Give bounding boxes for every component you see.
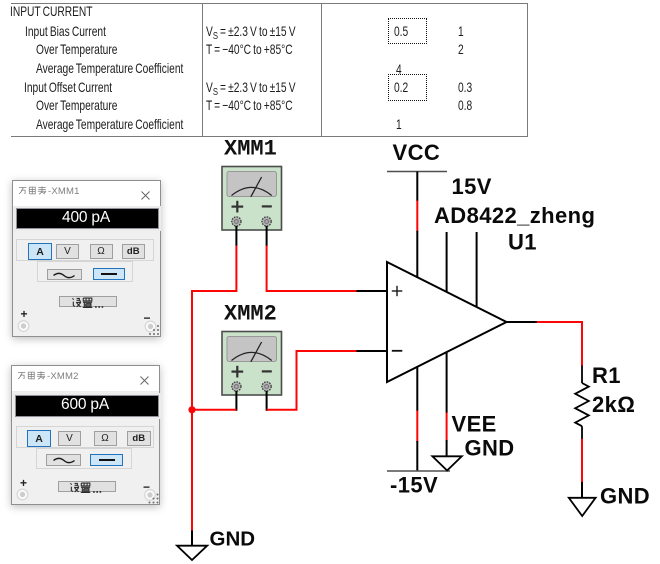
wire: XMM1 - terminal black stub [266,226,268,246]
wire: XMM2 + to junction (red) [192,409,236,411]
power: -15V bar [387,470,450,472]
table column line 1 [202,3,203,137]
pin: U1 REF (black, from lower triangle edge) [446,352,448,414]
sine button [47,269,82,280]
wire: XMM2 - to op-amp - input (red) [267,351,358,410]
table bottom border [11,136,527,137]
wire: left rail down to GND (red) [191,290,193,532]
wire: output to R1 (red) [537,322,582,366]
svg-text:-15V: -15V [390,472,438,497]
svg-text:GND: GND [600,484,650,509]
settings button [59,296,117,308]
svg-text:GND: GND [465,436,515,461]
DC button (selected) [90,454,123,466]
multimeter XMM1 body [222,167,282,231]
op-amp U1 triangle [387,262,507,382]
wire: op-amp - input pin (black) [357,350,388,352]
ground: output load GND symbol [569,482,596,516]
row 6: Over Temperature [36,98,117,114]
svg-text:U1: U1 [508,230,537,255]
row 4: Average Temperature Coefficient [36,61,183,77]
pin: REF black to ground [446,440,448,456]
node: junction at left rail / XMM2 + [188,406,195,413]
svg-text:15V: 15V [452,174,492,199]
svg-text:R1: R1 [592,363,621,388]
table column line 2 [321,3,322,137]
multimeter XMM2 body [222,332,282,396]
table: INPUT CURRENT datasheet fragment [0,0,530,140]
dashed box 0.5 [388,18,427,44]
terminal circles [13,319,161,337]
row 5: Input Offset Current [24,80,112,96]
ground: bottom-left GND symbol [177,531,207,561]
wire: REF to GND (red) [446,413,448,441]
terminal circles [12,488,160,506]
wire: XMM2 - terminal black stub [266,391,268,411]
instrument window: 万用表-XMM2 [11,365,160,506]
table top border [11,3,527,4]
svg-text:2kΩ: 2kΩ [592,392,635,417]
pin: -VS black to -15V bar [416,441,418,471]
wire: XMM1 - to op-amp + input (red) [267,246,358,292]
sine button [46,454,81,466]
dashed box 0.2 [388,74,427,101]
A button (selected) [28,243,52,260]
wire: R1 to GND (red) [581,439,583,483]
row 1: INPUT CURRENT [10,4,93,20]
op-amp - input mark [392,350,403,352]
pin: U1 RG1 stub (black, stops at triangle edge) [446,232,448,293]
ground: U1 REF GND symbol [432,456,461,470]
row 2: Input Bias Current [25,24,106,40]
svg-text:VCC: VCC [393,140,441,165]
wire: XMM2 + terminal black stub [235,391,237,411]
wire: XMM1 + terminal black stub [235,226,237,246]
pin: U1 output (black) [506,321,538,323]
op-amp + input mark [392,286,403,296]
svg-text:XMM1: XMM1 [224,137,277,162]
svg-text:GND: GND [210,528,256,551]
power VCC symbol [387,172,447,202]
row 3: Over Temperature [36,42,117,58]
resistor R1 [575,366,589,440]
wire: XMM1 + to left rail (red) [192,246,236,292]
svg-text:AD8422_zheng: AD8422_zheng [434,203,595,228]
svg-text:XMM2: XMM2 [224,302,277,327]
DC button (selected) [93,268,126,280]
wire: U1 -VS to -15V rail (red) [416,411,418,442]
pin: U1 RG stub (black, unconnected) [476,232,478,307]
wire: op-amp + input pin (black) [357,290,388,292]
svg-text:VEE: VEE [452,412,497,437]
table right border [527,3,528,137]
A button (selected) [27,430,51,447]
row 7: Average Temperature Coefficient [36,117,183,133]
instrument window: 万用表-XMM1 [12,180,161,337]
pin: U1 +VS (black, stops at triangle edge) [416,231,418,278]
settings button [58,481,117,492]
wire: VCC to U1 +VS (red) [416,201,418,232]
pin: U1 -VS (black, from lower triangle edge) [416,366,418,411]
